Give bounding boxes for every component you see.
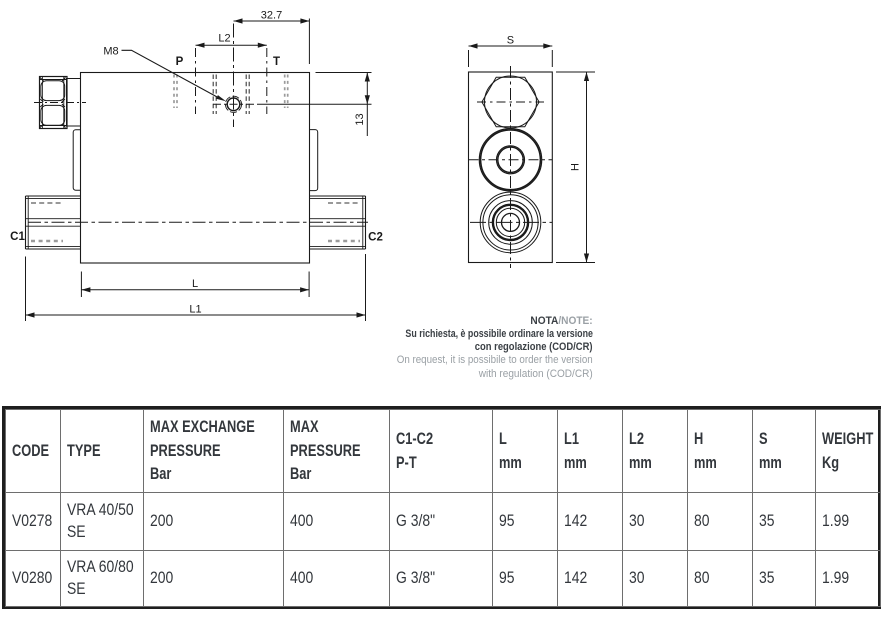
svg-text:32.7: 32.7 (261, 9, 282, 21)
svg-text:T: T (273, 56, 280, 68)
svg-text:L2: L2 (218, 33, 230, 45)
svg-text:C2: C2 (368, 232, 383, 244)
svg-text:L1: L1 (189, 304, 201, 316)
svg-text:L: L (192, 278, 198, 290)
svg-text:P: P (176, 56, 184, 68)
svg-text:13: 13 (354, 113, 366, 125)
svg-text:C1: C1 (10, 231, 25, 243)
svg-text:M8: M8 (103, 46, 118, 58)
svg-text:S: S (507, 35, 514, 47)
svg-text:H: H (570, 163, 582, 171)
